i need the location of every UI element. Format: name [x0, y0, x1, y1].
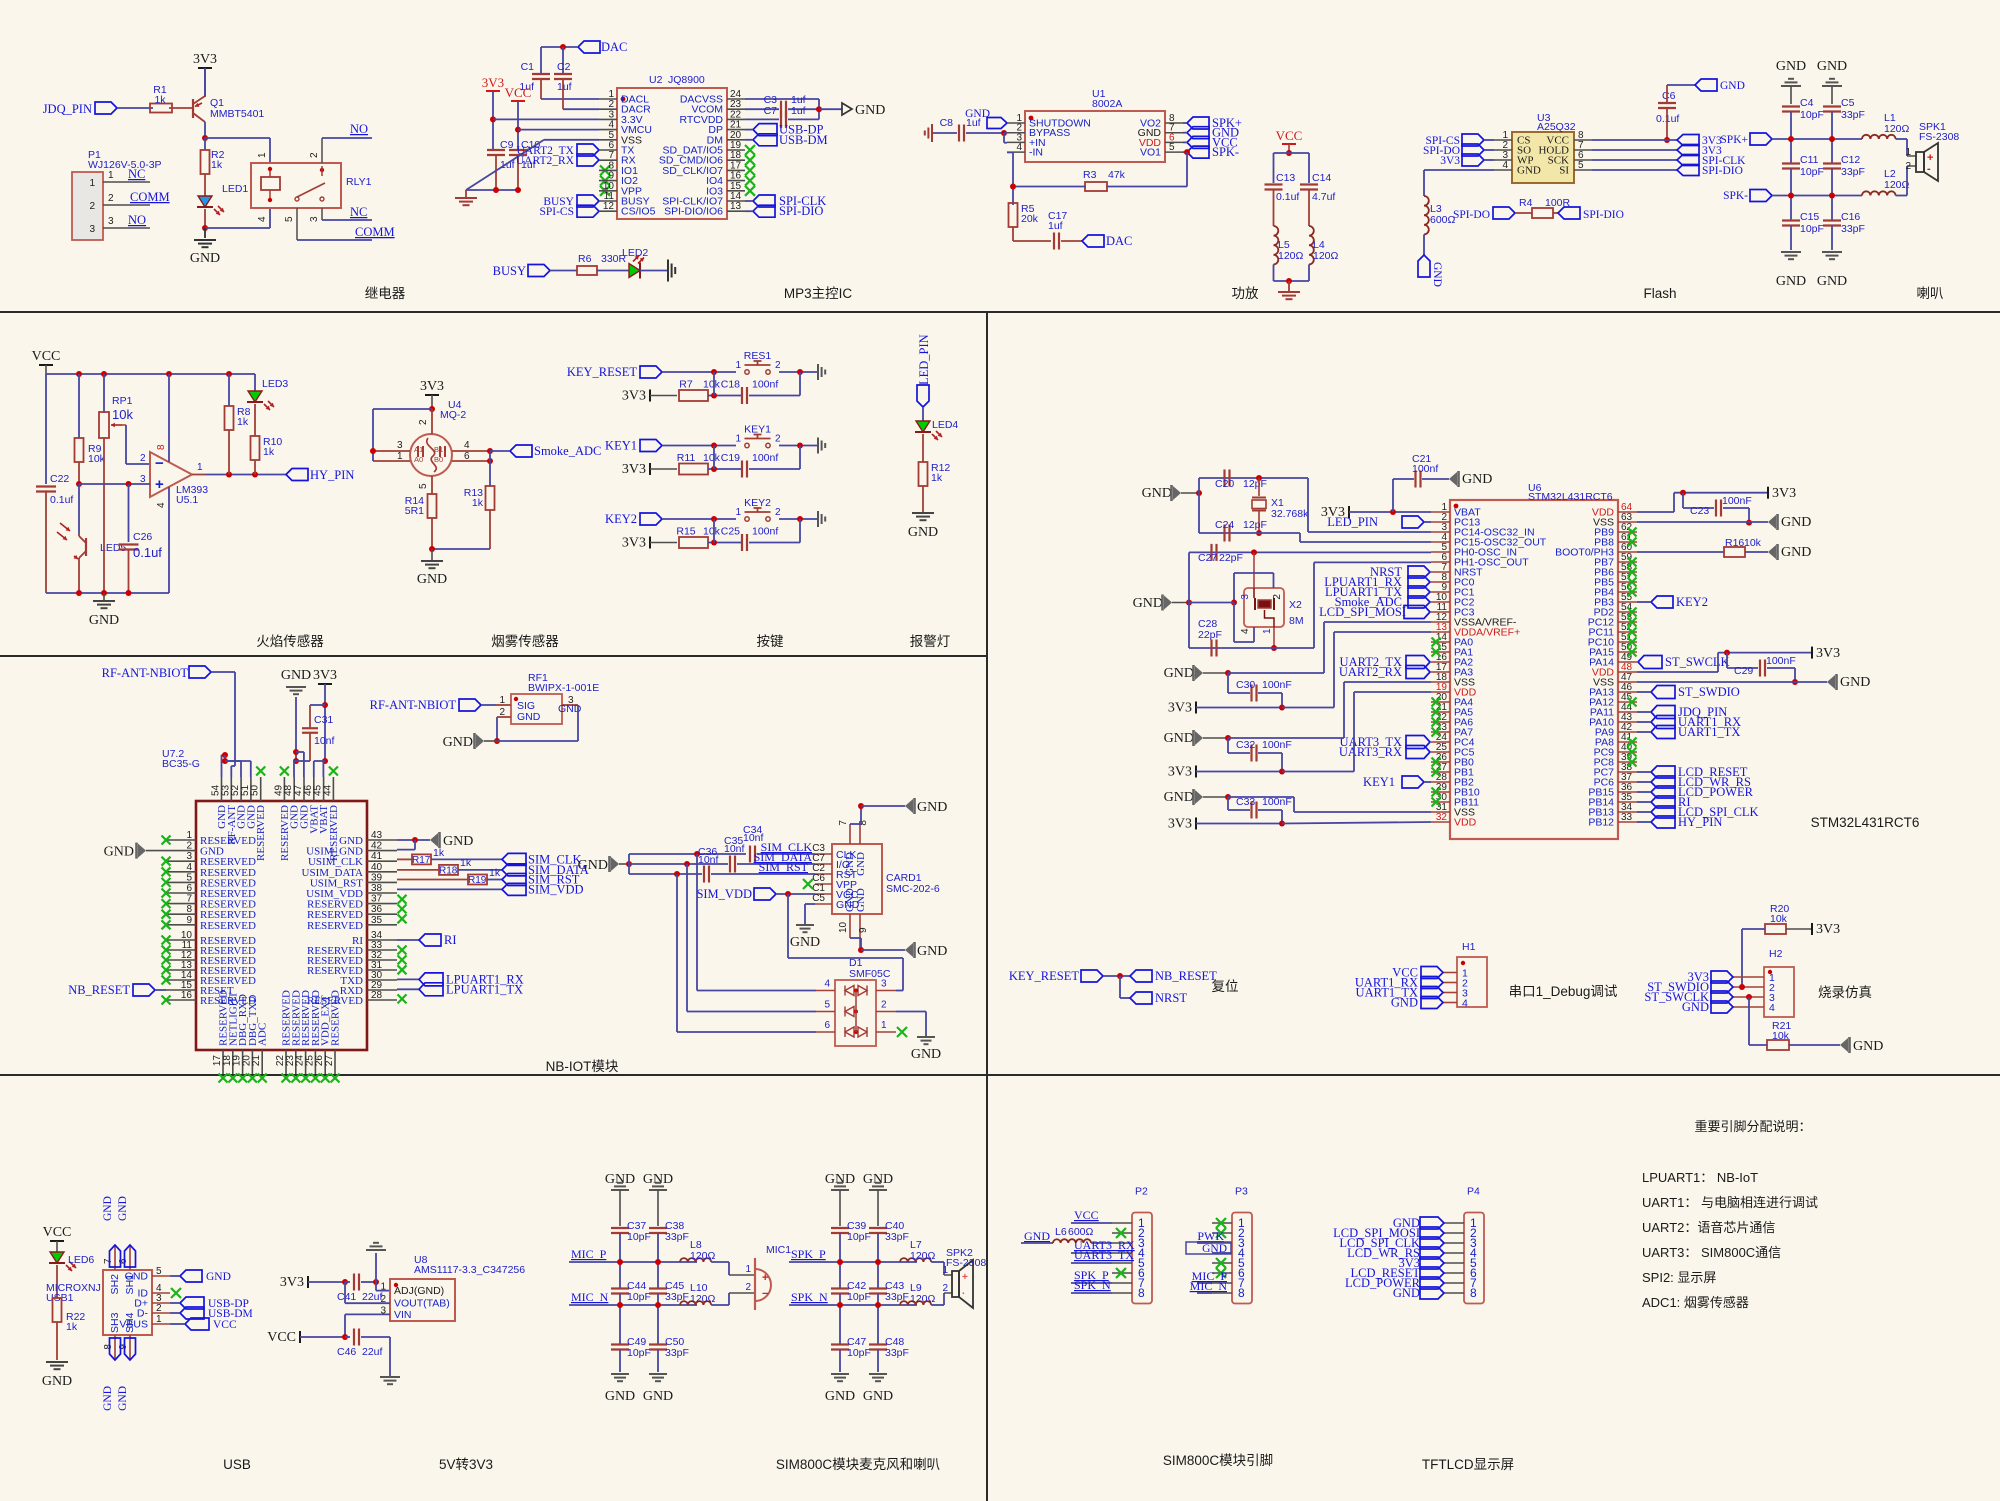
svg-text:GND: GND [1776, 59, 1806, 74]
U6 pin 16 (PA2) [1431, 661, 1450, 663]
junction 3V3/pin3 [490, 116, 496, 122]
svg-text:1uf: 1uf [1048, 220, 1063, 232]
inductor L4 [1309, 226, 1314, 264]
U6 pin 38 (PC7) [1618, 771, 1637, 773]
junction out/R8 [226, 472, 232, 478]
U6 pin 48 (VDD) [1618, 671, 1637, 673]
svg-text:SPI-DIO: SPI-DIO [1583, 209, 1624, 221]
junction H2 pin2 [1739, 984, 1745, 990]
U3 pin 5 (SI) [1574, 169, 1592, 171]
U7.2 pin 11 (RESERVED) [166, 949, 196, 951]
svg-text:ADC1: 烟雾传感器: ADC1: 烟雾传感器 [1642, 1295, 1749, 1310]
svg-text:GND: GND [578, 858, 608, 873]
junction node Q1/R2/relay [202, 135, 208, 141]
svg-text:GND: GND [1776, 274, 1806, 289]
svg-text:600Ω: 600Ω [1430, 214, 1456, 226]
svg-text:NB-IOT模块: NB-IOT模块 [546, 1059, 619, 1074]
net flag SIM_VDD (U7.2) [502, 883, 526, 895]
svg-text:0.1uf: 0.1uf [133, 545, 162, 560]
U6 pin 14 (PA0) [1431, 641, 1450, 643]
junction 3V3/C41 [342, 1279, 348, 1285]
svg-text:1: 1 [257, 152, 268, 158]
svg-text:RP1: RP1 [112, 395, 133, 407]
svg-text:烟雾传感器: 烟雾传感器 [491, 633, 559, 649]
svg-text:100nF: 100nF [1766, 655, 1796, 667]
junction KEY2 [711, 516, 717, 522]
U2 pin 19 (SD_DAT/IO5) [727, 149, 745, 151]
U6 pin 64 (VDD) [1618, 511, 1637, 513]
U6 pin 55 (PB3) [1618, 601, 1637, 603]
wire KEY_RESET to switch [662, 371, 736, 373]
svg-text:R6: R6 [578, 253, 592, 265]
U6 pin 56 (PB4) [1618, 591, 1637, 593]
inductor L8 [680, 1258, 711, 1262]
capacitor C28 [1210, 640, 1212, 657]
svg-text:GND: GND [790, 935, 820, 950]
svg-text:LED_PIN: LED_PIN [917, 334, 931, 385]
svg-text:GND: GND [104, 845, 134, 860]
svg-text:2: 2 [186, 841, 192, 852]
svg-text:JQ8900: JQ8900 [668, 74, 705, 86]
svg-text:X2: X2 [1289, 599, 1302, 611]
svg-text:33pF: 33pF [1841, 109, 1865, 121]
U2 pin 24 (DACVSS) [727, 98, 745, 100]
svg-text:MP3主控IC: MP3主控IC [784, 286, 853, 301]
U7.2 pin 22 (RESERVED) [285, 1050, 287, 1074]
svg-text:A1: A1 [414, 445, 423, 454]
U7.2 pin 15 (RESET) [166, 989, 196, 991]
junction VCC/pin4 [515, 127, 521, 133]
svg-text:2: 2 [140, 453, 146, 464]
P3 pin 2 [1212, 1232, 1232, 1234]
U7.2 pin 51 (GND) [250, 777, 252, 801]
junction C10 bottom [515, 187, 521, 193]
svg-text:120Ω: 120Ω [1884, 179, 1910, 191]
U7.2 pin 7 (RESERVED) [166, 903, 196, 905]
svg-text:GND: GND [443, 834, 473, 849]
U2 pin 21 (DP) [727, 129, 745, 131]
U2 pin 22 (RTCVDD) [727, 118, 745, 120]
ground GND bottom-right (spk) [1822, 251, 1842, 253]
svg-text:GND: GND [855, 103, 885, 118]
U7.2 pin 14 (RESERVED) [166, 979, 196, 981]
net flag LCD_WR_RS (stm32) [1651, 776, 1675, 788]
no-connect U7.2 pin 18 [228, 1074, 237, 1083]
capacitor C2 [562, 47, 564, 74]
U7.2 pin 21 (ADC) [261, 1050, 263, 1074]
D1 pin 2 stub [876, 1011, 896, 1013]
svg-text:3: 3 [186, 851, 192, 862]
wire SPK_P row [789, 1261, 917, 1263]
U1 pin 3 (+IN) [1007, 141, 1025, 143]
svg-text:RESERVED: RESERVED [328, 805, 340, 861]
svg-text:4: 4 [186, 862, 192, 873]
U7.2 pin 32 (RESERVED) [367, 959, 397, 961]
capacitor C44 [611, 1287, 629, 1289]
svg-text:10pF: 10pF [1800, 166, 1824, 178]
svg-text:SPI-CS: SPI-CS [539, 206, 574, 218]
svg-text:SI: SI [1559, 165, 1569, 177]
svg-text:2: 2 [775, 434, 781, 445]
svg-text:C22: C22 [50, 473, 69, 485]
svg-text:C29: C29 [1734, 665, 1753, 677]
wire gnd pin54 link [221, 755, 223, 777]
svg-text:8: 8 [1138, 1286, 1145, 1300]
no-connect pin17 [745, 165, 755, 175]
wire col2 b (mic) [657, 1294, 659, 1345]
resistor R12 [919, 462, 928, 486]
ground sideways (KEY2) [817, 511, 819, 527]
svg-text:2: 2 [499, 707, 505, 718]
svg-text:VO1: VO1 [1140, 147, 1161, 159]
net flag GND (usb pin5) [180, 1270, 202, 1282]
inductor L6 [1053, 1239, 1091, 1243]
svg-text:600Ω: 600Ω [1068, 1226, 1094, 1238]
wire DAC node [541, 46, 578, 48]
net flag USB-DM (usb) [180, 1307, 204, 1319]
svg-text:RF-ANT-NBIOT: RF-ANT-NBIOT [370, 698, 457, 712]
svg-text:4.7uf: 4.7uf [1312, 191, 1335, 203]
svg-text:GND: GND [42, 1374, 72, 1389]
USB1 pin 2 (D-) [152, 1312, 170, 1314]
U7.2 pin 50 (RESERVED) [260, 777, 262, 801]
svg-text:4: 4 [1016, 142, 1022, 153]
svg-text:GND: GND [917, 800, 947, 815]
wire C6 top to GND flag [1666, 85, 1668, 103]
svg-text:3V3: 3V3 [1168, 701, 1192, 716]
svg-text:3V3: 3V3 [1168, 765, 1192, 780]
wire reset node [1103, 975, 1130, 977]
svg-text:10k: 10k [1772, 1030, 1790, 1042]
net flag VCC out [1187, 136, 1209, 148]
capacitor C29 [1726, 653, 1728, 668]
net flag LCD_POWER (stm32) [1651, 786, 1675, 798]
wire pin41 to R17 [397, 858, 412, 860]
resistor R4 [1532, 208, 1553, 218]
U6 pin 24 (PC4) [1431, 741, 1450, 743]
U4 pin3 [373, 450, 410, 452]
no-connect U6 pin 54 [1628, 608, 1637, 617]
gnd flag (R16) [1768, 545, 1776, 559]
wire card bottom gnd [850, 937, 861, 939]
net flag HY_PIN (stm32) [1651, 816, 1675, 828]
wire gnd to pins 47/48 [293, 761, 295, 777]
U1 pin 2 (BYPASS) [1007, 132, 1025, 134]
U4 pin2 top [431, 409, 433, 434]
capacitor C46 [345, 1336, 350, 1338]
CARD1 bottom pins 10/9 [849, 914, 851, 938]
ground GND bot1 (spk) [831, 1373, 849, 1375]
junction rail R9 [76, 371, 82, 377]
resistor R22 [53, 1298, 62, 1322]
wire antenna [211, 671, 235, 673]
P3 pin 7 [1212, 1282, 1232, 1284]
svg-text:SIM800C模块引脚: SIM800C模块引脚 [1163, 1453, 1273, 1468]
svg-text:GND: GND [1781, 545, 1811, 560]
svg-text:LPUART1_TX: LPUART1_TX [446, 982, 523, 996]
capacitor C16 [1823, 219, 1841, 221]
IC U4 MQ-2 body [410, 434, 452, 476]
svg-text:C2: C2 [557, 61, 571, 73]
U6 pin 27 (PB1) [1431, 771, 1450, 773]
svg-text:1: 1 [397, 451, 403, 462]
wire D1 pin6 riser [676, 874, 678, 1032]
junction SPK- C15col [1788, 193, 1794, 199]
wire pin30 TXD [397, 978, 419, 980]
gnd flag (U7.2 pin2) [138, 844, 146, 858]
capacitor C27 [1210, 544, 1212, 561]
svg-text:28: 28 [371, 990, 383, 1001]
svg-text:GND: GND [1164, 666, 1194, 681]
U7.2 pin 12 (RESERVED) [166, 959, 196, 961]
junction pin2/pin3 [1001, 130, 1007, 136]
junction KEY_RESET [711, 369, 717, 375]
svg-text:R18: R18 [439, 866, 458, 877]
junction R9/plus [76, 481, 82, 487]
U2 pin 16 (IO4) [727, 180, 745, 182]
RF1 pin1 SIG [496, 704, 511, 706]
wire LED1 to gnd node [204, 209, 206, 228]
P3 pin 1 [1212, 1222, 1232, 1224]
resistor R21 [1748, 997, 1750, 1045]
junction D1 pin6 tap [674, 871, 680, 877]
no-connect U7.2 pin 8 [162, 910, 171, 919]
no-connect U7.2 pin31 [398, 965, 407, 974]
no-connect usb ID [171, 1288, 181, 1298]
wire gnd row rf1 [484, 740, 497, 742]
svg-text:1uf: 1uf [557, 81, 572, 93]
D1 pin 1 stub [876, 1031, 896, 1033]
no-connect U6 pin 51 [1628, 638, 1637, 647]
svg-text:10pF: 10pF [847, 1231, 871, 1243]
svg-text:33pF: 33pF [665, 1231, 689, 1243]
svg-text:10k: 10k [112, 407, 133, 422]
U6 pin 33 (PB12) [1618, 821, 1637, 823]
U6 pin 35 (PB14) [1618, 801, 1637, 803]
no-connect U6 pin 56 [1628, 588, 1637, 597]
net flag ST_SWDIO (stm32) [1651, 686, 1675, 699]
net label GND (P3, boxed) [1186, 1242, 1231, 1254]
svg-text:C16: C16 [1841, 211, 1860, 223]
svg-text:Flash: Flash [1643, 286, 1676, 301]
U7.2 pin 46 (VBAT) [313, 777, 315, 801]
D1 pin 3 stub [876, 990, 896, 992]
led LED6 [50, 1252, 64, 1263]
net flag GND (sh4) [125, 1338, 136, 1360]
header P3 body [1232, 1213, 1252, 1304]
svg-text:10k: 10k [1744, 537, 1762, 549]
U6 pin 31 (VSS) [1431, 811, 1450, 813]
svg-text:120Ω: 120Ω [1884, 123, 1910, 135]
svg-text:RESERVED: RESERVED [200, 920, 256, 932]
ground (C8 left sideways earth) [931, 124, 933, 142]
no-connect U6 pin 53 [1628, 618, 1637, 627]
no-connect P3 pin2 [1216, 1228, 1226, 1238]
wire vert KEY2 [713, 519, 715, 543]
svg-text:33pF: 33pF [885, 1231, 909, 1243]
U6 pin 60 (BOOT0/PH3) [1618, 551, 1637, 553]
svg-text:USB-DM: USB-DM [779, 133, 828, 147]
wire vbat pins [314, 760, 325, 762]
wire R7 to C [708, 395, 742, 397]
net flag USB-DP [753, 124, 777, 136]
bottom rail (flame) [46, 592, 169, 594]
wire R16 gnd [1745, 551, 1768, 553]
no-connect P3 pin5 [1216, 1258, 1226, 1268]
RP1 wiper arrow [111, 424, 122, 426]
junction SPK+ C4 [1788, 136, 1794, 142]
svg-text:C25: C25 [721, 526, 740, 538]
svg-text:3V3: 3V3 [1816, 922, 1840, 937]
svg-text:HY_PIN: HY_PIN [1678, 815, 1722, 829]
wire L8 to MIC1 [711, 1261, 729, 1263]
capacitor C25 [741, 534, 743, 551]
wire feedback right [1186, 152, 1188, 186]
no-connect U7.2 pin 4 [162, 867, 171, 876]
capacitor C47 [831, 1343, 849, 1345]
no-connect U7.2 pin 21 [258, 1074, 267, 1083]
wire 3V3 to pin3 [493, 118, 599, 120]
wire -IN node [1007, 151, 1013, 153]
capacitor C35 [729, 856, 731, 873]
header H1 body [1457, 957, 1487, 1007]
inductor L10 [680, 1301, 711, 1305]
no-connect U7.2 pin 7 [162, 899, 171, 908]
svg-text:U2: U2 [649, 74, 663, 86]
svg-text:3V3: 3V3 [1772, 486, 1796, 501]
wire MIC_P row [569, 1261, 697, 1263]
wire C12-C16 [1831, 169, 1833, 221]
svg-text:10nf: 10nf [724, 843, 745, 855]
X2 shield loop [1234, 572, 1274, 574]
svg-text:4: 4 [464, 440, 470, 451]
U6 pin1 marker [1454, 504, 1459, 509]
wire vert right KEY1 [799, 446, 801, 470]
svg-text:C13: C13 [1276, 172, 1295, 184]
no-connect U6 pin 52 [1628, 628, 1637, 637]
U7.2 pin 48 (GND) [293, 777, 295, 801]
net flag USB-DM [753, 134, 777, 146]
svg-text:UART3： SIM800C通信: UART3： SIM800C通信 [1642, 1245, 1781, 1260]
U4 heater plates [417, 446, 419, 457]
junction top gnd a [293, 749, 299, 755]
wire filter bottom [1273, 264, 1275, 281]
no-connect U7.2 pin37 [398, 895, 407, 904]
U2 pin 1 (DACL) [599, 98, 617, 100]
svg-text:SH3: SH3 [109, 1312, 121, 1333]
net flag LCD_RESET (stm32) [1651, 766, 1675, 778]
wire col2 a (mic) [657, 1233, 659, 1289]
wire vert KEY1 [713, 446, 715, 470]
svg-text:+: + [762, 1272, 768, 1284]
svg-text:+: + [155, 476, 164, 493]
svg-text:13: 13 [730, 201, 742, 212]
no-connect U7.2 pin 16 [162, 996, 171, 1005]
svg-text:SMC-202-6: SMC-202-6 [886, 883, 940, 895]
capacitor C39 [831, 1227, 849, 1229]
no-connect U6 pin 59 [1628, 558, 1637, 567]
svg-text:VCC: VCC [505, 85, 532, 100]
ground (MP3 red earth) [465, 190, 467, 197]
wire DATA row [629, 863, 728, 865]
U6 pin 37 (PC6) [1618, 781, 1637, 783]
svg-text:GND: GND [643, 1389, 673, 1404]
U6 pin 53 (PC12) [1618, 621, 1637, 623]
svg-text:35: 35 [371, 915, 383, 926]
svg-text:1k: 1k [66, 1321, 78, 1333]
svg-text:10k: 10k [703, 452, 721, 464]
opamp U5.1 LM393 [150, 452, 192, 497]
no-connect U7.2 pin 23 [291, 1074, 300, 1083]
svg-text:RESERVED: RESERVED [307, 920, 363, 932]
net flag GND (sh2) [110, 1245, 121, 1267]
svg-text:1k: 1k [263, 446, 275, 458]
svg-text:SPK_N: SPK_N [1074, 1278, 1111, 1292]
net flag GND out [1187, 127, 1209, 139]
capacitor C1 [540, 47, 542, 74]
wire col2 c (spk) [877, 1350, 879, 1373]
svg-text:GND: GND [102, 1196, 114, 1221]
gnd flag (card bottom) [905, 943, 913, 957]
inductor L5 [1274, 226, 1279, 264]
svg-text:5: 5 [1169, 142, 1175, 153]
U7.2 pin 27 (RESERVED) [334, 1050, 336, 1074]
U7.2 pin 26 (VDD_EXT) [324, 1050, 326, 1074]
svg-text:3V3: 3V3 [1440, 155, 1460, 167]
no-connect D1 pin1 [897, 1027, 907, 1037]
no-connect U6 pin 50 [1628, 648, 1637, 657]
wire X1 gnd [1181, 492, 1199, 494]
svg-text:SPK_N: SPK_N [791, 1290, 828, 1304]
svg-text:1: 1 [881, 1020, 887, 1031]
U7.2 pin 39 (USIM_RST) [367, 881, 397, 883]
net flag RI (stm32) [1651, 796, 1675, 808]
no-connect U7.2 pin 27 [331, 1074, 340, 1083]
svg-text:NO: NO [128, 213, 146, 227]
svg-text:GND: GND [443, 735, 473, 750]
junction SPK_P c2 [875, 1259, 881, 1265]
D1 pin 6 stub [816, 1031, 835, 1033]
no-connect VPP [803, 879, 813, 889]
svg-text:火焰传感器: 火焰传感器 [256, 633, 324, 649]
divider vertical center [986, 312, 988, 1501]
U7.2 pin 43 (GND) [367, 839, 397, 841]
svg-text:2: 2 [775, 507, 781, 518]
no-connect U7.2 pin33 [398, 946, 407, 955]
no-connect U7.2 pin32 [398, 955, 407, 964]
wire L2 to SPK1 [1896, 195, 1907, 197]
junction VO1 [1184, 149, 1190, 155]
net flag SPI-DIO [753, 205, 775, 217]
wire C8 to U1 [966, 132, 1004, 134]
U6 pin 43 (PA10) [1618, 721, 1637, 723]
svg-text:C41: C41 [337, 1291, 356, 1303]
relay switch contacts [320, 168, 324, 172]
junction SPK_P c1 [837, 1259, 843, 1265]
svg-text:串口1_Debug调试: 串口1_Debug调试 [1509, 984, 1618, 999]
U6 pin 5 (PH0-OSC_IN) [1431, 551, 1450, 553]
wire SPK- row [1772, 195, 1862, 197]
ground GND (MQ2) [431, 549, 433, 560]
svg-text:12: 12 [603, 201, 615, 212]
resistor R17 [412, 854, 431, 864]
U6 pin 8 (PC0) [1431, 581, 1450, 583]
wire R21 gnd [1789, 1044, 1840, 1046]
wire C31 gnd [296, 760, 310, 762]
svg-text:50: 50 [250, 784, 261, 796]
svg-text:TFTLCD显示屏: TFTLCD显示屏 [1422, 1457, 1514, 1472]
svg-text:PB12: PB12 [1588, 817, 1614, 829]
